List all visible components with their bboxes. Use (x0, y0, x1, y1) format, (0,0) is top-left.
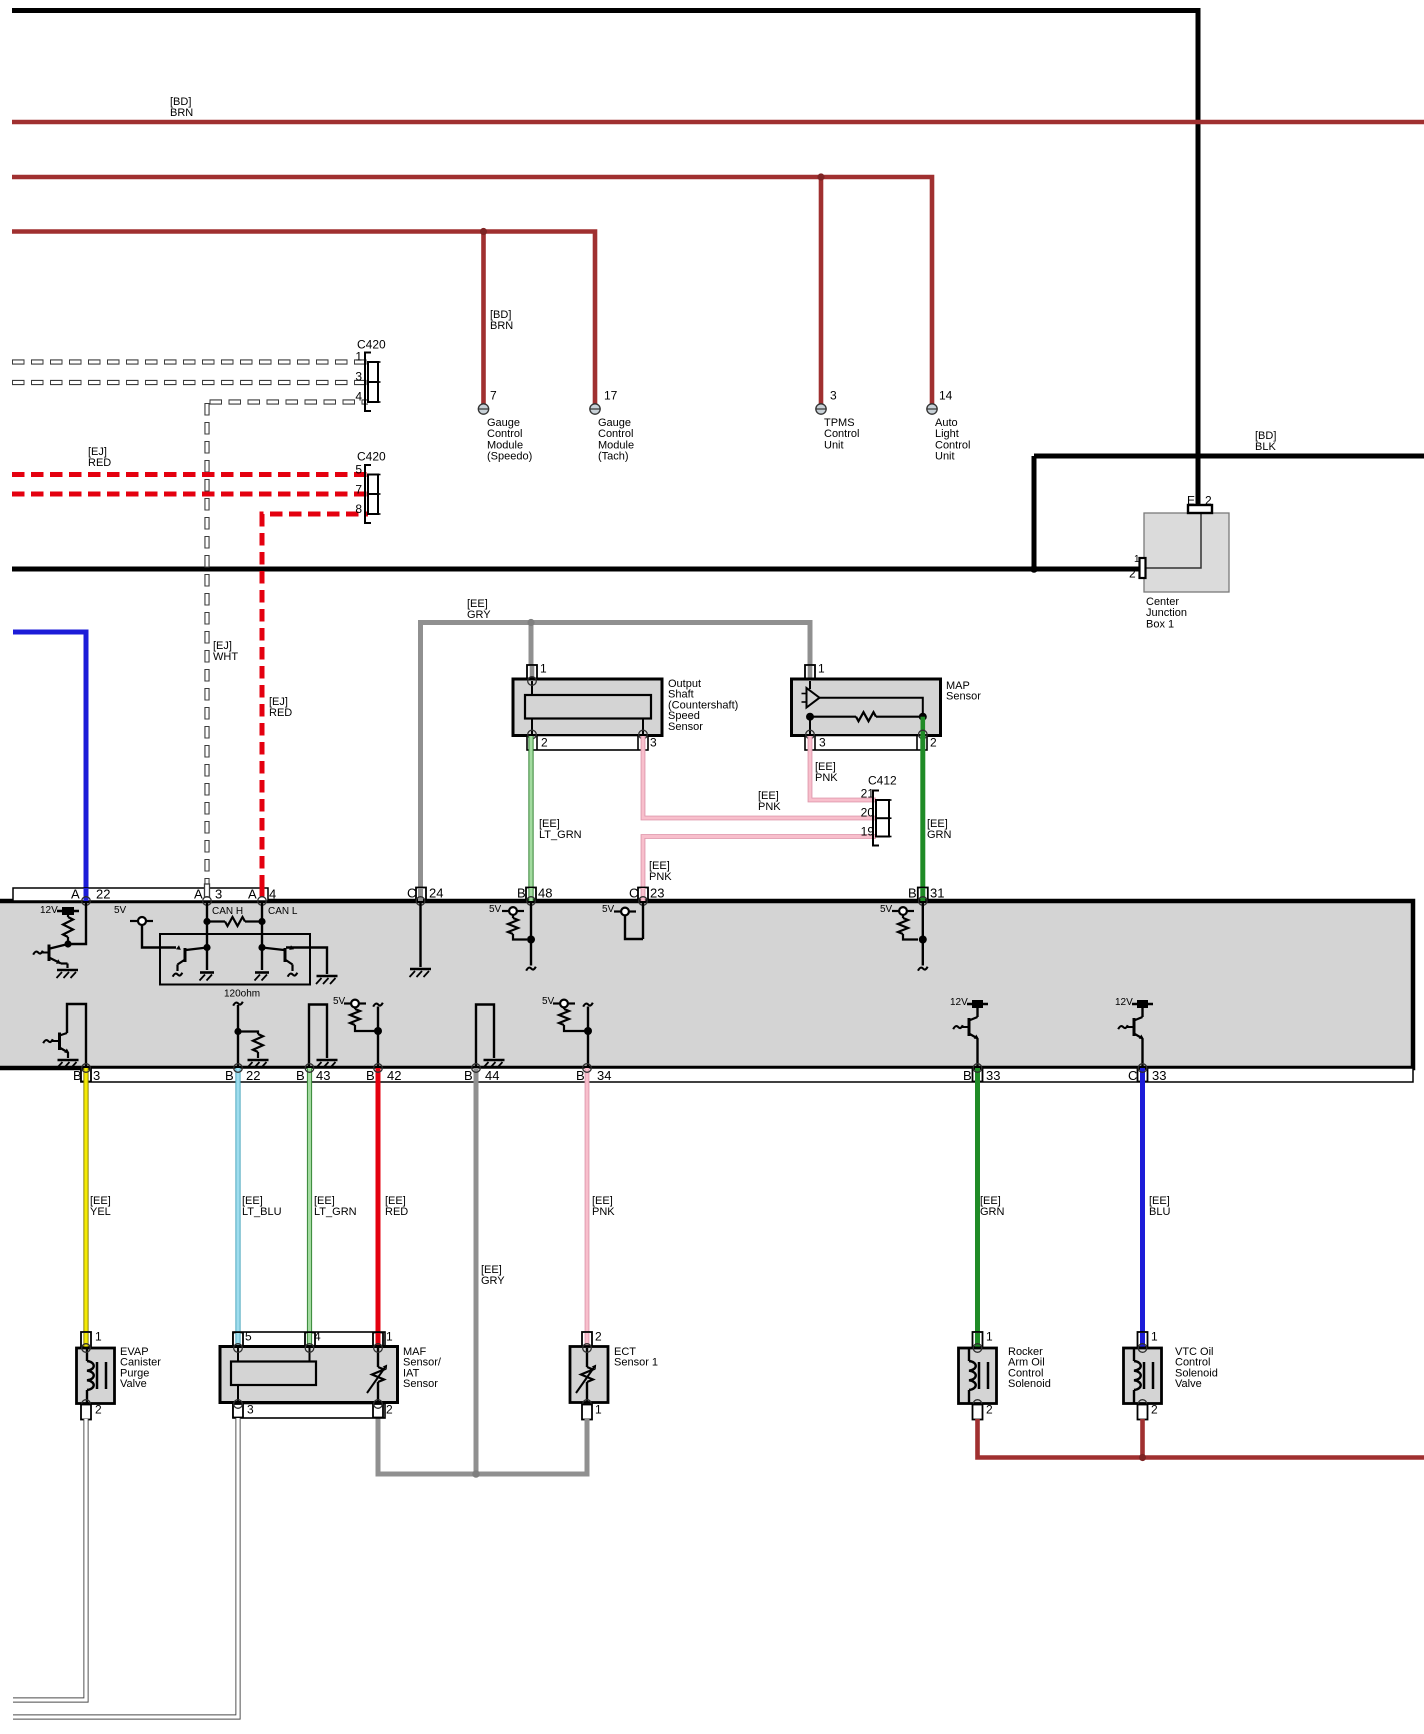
svg-text:Auto: Auto (935, 417, 958, 429)
node CAN H top (203, 918, 210, 925)
wire WHT dashed branch (C420 pin 4) (210, 399, 369, 404)
svg-text:RED: RED (88, 457, 111, 469)
resistor (B34 pull-up) (559, 1009, 569, 1025)
svg-text:2: 2 (986, 1403, 993, 1417)
pin circle bottom (ECT) (583, 1400, 592, 1409)
terminal pin 2 (EVAP) (81, 1405, 91, 1420)
wire BRN branch to TPMS (819, 177, 824, 404)
terminating resistor 120ohm (207, 920, 225, 922)
wire 5V to transceiver base (142, 925, 176, 948)
connector E2 terminal (1188, 505, 1212, 513)
svg-text:[EE]: [EE] (539, 818, 560, 830)
svg-text:2: 2 (386, 1403, 393, 1417)
transistor Q5 (B33 driver) (969, 1017, 978, 1021)
svg-text:34: 34 (597, 1068, 611, 1083)
connector pin 1 terminal (Output Shaft sensor) (527, 665, 537, 679)
svg-text:(Tach): (Tach) (598, 451, 629, 463)
svg-text:[EE]: [EE] (649, 860, 670, 872)
svg-text:1: 1 (95, 1330, 102, 1344)
wire WHT dash terminal A3 (205, 884, 210, 897)
svg-text:[EE]: [EE] (592, 1195, 613, 1207)
svg-text:3: 3 (93, 1068, 100, 1083)
svg-text:1: 1 (595, 1403, 602, 1417)
solenoid coil (VTC) (1133, 1349, 1135, 1361)
ground (B44) (484, 1059, 505, 1062)
terminal pin 2 (ECT) (582, 1332, 592, 1347)
svg-text:LT_GRN: LT_GRN (314, 1206, 357, 1218)
terminal pin 3 (MAF) (233, 1404, 243, 1418)
wire B44 loop (476, 1005, 494, 1069)
internal wire amp output (820, 698, 923, 717)
svg-text:2: 2 (95, 1403, 102, 1417)
svg-text:14: 14 (939, 389, 953, 403)
wire LT_GRN B43 to MAF pin4 (307, 1068, 312, 1347)
svg-text:[BD]: [BD] (1255, 430, 1276, 442)
wire LT_GRN through B48 terminal (528, 888, 533, 901)
svg-text:B: B (225, 1068, 234, 1083)
svg-text:Sensor 1: Sensor 1 (614, 1357, 658, 1369)
svg-text:Control: Control (935, 439, 970, 451)
svg-text:PNK: PNK (592, 1206, 615, 1218)
wire PNK C412 pin 19 to ECM C23 (643, 837, 876, 900)
svg-text:Sensor: Sensor (946, 691, 981, 703)
svg-text:12V: 12V (1115, 997, 1133, 1008)
svg-text:2: 2 (1205, 494, 1212, 508)
wire GRY branch to output shaft sensor (529, 623, 534, 680)
wire GRY through C24 terminal (418, 888, 423, 901)
terminal pin 2 (VTC) (1138, 1405, 1148, 1420)
solenoid coil (EVAP) (86, 1349, 88, 1361)
svg-text:GRN: GRN (980, 1206, 1005, 1218)
svg-text:[EE]: [EE] (980, 1195, 1001, 1207)
MAF inner element (231, 1362, 316, 1386)
wire WHT dashed bus 2 (C420 pin 3) (12, 380, 368, 385)
pin circle B43 (305, 1064, 314, 1073)
svg-text:24: 24 (429, 885, 443, 900)
node B48 (527, 936, 535, 944)
svg-text:B: B (73, 1068, 82, 1083)
svg-text:42: 42 (387, 1068, 401, 1083)
node junction GRY (527, 619, 534, 626)
ground (B3 driver) (58, 1059, 79, 1062)
svg-text:1: 1 (1151, 1330, 1158, 1344)
node junction BRN return (1139, 1454, 1146, 1461)
wire BLK main power (top) (12, 11, 1198, 507)
svg-text:Center: Center (1146, 596, 1179, 608)
internal lead pin4 (MAF) (309, 1348, 311, 1362)
svg-text:[EJ]: [EJ] (269, 696, 288, 708)
pin circle 2 (MAF) (374, 1400, 383, 1409)
wire BLU to ECM A22 (13, 632, 86, 899)
svg-text:31: 31 (930, 885, 944, 900)
wire RED dashed vertical to ECM A4 (260, 514, 265, 897)
svg-text:[EE]: [EE] (815, 761, 836, 773)
svg-text:Control: Control (598, 428, 633, 440)
svg-text:5: 5 (245, 1330, 252, 1344)
svg-text:1: 1 (818, 662, 825, 676)
svg-text:BLK: BLK (1255, 441, 1276, 453)
terminal box C33 (1138, 1069, 1148, 1082)
wire LT_GRN output pin2 to ECM B48 (528, 736, 533, 899)
svg-text:LT_GRN: LT_GRN (539, 829, 582, 841)
wire PNK through C23 terminal (641, 888, 646, 901)
wire PNK B34 to ECT pin2 (585, 1068, 590, 1347)
wire C23 lead (642, 901, 644, 939)
svg-text:LT_BLU: LT_BLU (242, 1206, 282, 1218)
svg-text:A: A (194, 886, 203, 901)
MAP sensor amplifier triangle (807, 688, 820, 708)
ECM connector strip A (top) (13, 888, 268, 901)
svg-text:B: B (517, 885, 526, 900)
svg-text:BRN: BRN (490, 320, 513, 332)
svg-text:A: A (71, 886, 80, 901)
svg-text:3: 3 (819, 736, 826, 750)
internal link inside junction box (1146, 513, 1201, 568)
wire BLK ground bus (12, 567, 1141, 572)
valve bars (VTC) (1143, 1362, 1146, 1389)
svg-text:Unit: Unit (935, 451, 955, 463)
svg-text:[EE]: [EE] (758, 790, 779, 802)
svg-text:4: 4 (269, 886, 276, 901)
svg-text:Sensor: Sensor (668, 721, 703, 733)
svg-text:1: 1 (540, 662, 547, 676)
svg-text:PNK: PNK (649, 871, 672, 883)
svg-text:[EE]: [EE] (385, 1195, 406, 1207)
svg-text:Box 1: Box 1 (1146, 618, 1174, 630)
node internal right (MAP) (919, 713, 927, 721)
wire CAN H lead (206, 901, 208, 970)
wire CAN L lead (261, 901, 263, 970)
svg-text:B: B (963, 1068, 972, 1083)
transistor Q4 (B3 driver) (60, 1033, 68, 1036)
terminal pin 1 (EVAP) (81, 1332, 91, 1347)
svg-text:1: 1 (1134, 554, 1140, 565)
svg-text:C: C (1128, 1068, 1137, 1083)
svg-text:[EJ]: [EJ] (88, 446, 107, 458)
svg-text:Module: Module (487, 439, 523, 451)
wire WHT EVAP pin2 (13, 1419, 86, 1700)
ECT Sensor 1 body (570, 1347, 608, 1403)
svg-text:CAN L: CAN L (268, 906, 298, 917)
wire YEL B3 to EVAP valve (83, 1068, 88, 1347)
valve bars (Rocker) (978, 1362, 981, 1389)
svg-text:5: 5 (355, 463, 362, 477)
svg-text:GRY: GRY (467, 609, 491, 621)
svg-text:Valve: Valve (120, 1378, 147, 1390)
resistor internal (MAP) (810, 716, 856, 718)
svg-text:C: C (629, 885, 638, 900)
MAF Sensor / IAT Sensor body (220, 1347, 398, 1403)
terminal box B3 (81, 1069, 91, 1082)
wire BRN solenoid return bus (978, 1419, 1424, 1458)
terminal pin 1 (Rocker) (973, 1332, 983, 1347)
svg-text:3: 3 (650, 736, 657, 750)
wire BLU through A22 strip (84, 888, 89, 901)
svg-text:2: 2 (1129, 567, 1136, 581)
svg-text:48: 48 (538, 885, 552, 900)
wire GRY B44 sensor ground (474, 1068, 479, 1474)
svg-text:22: 22 (246, 1068, 260, 1083)
svg-text:2: 2 (541, 736, 548, 750)
terminal pin 5 (MAF) (233, 1333, 243, 1347)
connector strip (MAF bottom) (233, 1404, 385, 1419)
svg-text:[EE]: [EE] (467, 598, 488, 610)
internal lead pin3 (MAF) (237, 1385, 239, 1403)
node junction BLK (1030, 565, 1038, 573)
ECM connector strip (bottom) (81, 1068, 1413, 1082)
svg-text:22: 22 (96, 886, 110, 901)
pin circle top (EVAP) (82, 1344, 91, 1353)
svg-text:BLU: BLU (1149, 1206, 1170, 1218)
svg-text:B: B (464, 1068, 473, 1083)
terminal pin 1 (VTC) (1138, 1332, 1148, 1347)
Rocker Arm Oil Control Solenoid body (959, 1348, 997, 1404)
svg-text:TPMS: TPMS (824, 417, 855, 429)
terminal pin 1 (ECT) (582, 1405, 592, 1420)
terminal pin 4 (MAF) (305, 1333, 315, 1347)
terminal box B31 (918, 888, 928, 900)
pin circle B3 (82, 1064, 91, 1073)
wire Q3 base to ground (286, 948, 327, 975)
CAN transceiver box (160, 934, 310, 985)
svg-text:44: 44 (485, 1068, 499, 1083)
wire B42 lead (377, 1007, 379, 1069)
svg-text:(Speedo): (Speedo) (487, 451, 532, 463)
ground (A22 driver) (57, 969, 78, 972)
svg-text:5V: 5V (542, 996, 555, 1007)
pin circle 1 (Output Shaft sensor) (528, 677, 537, 686)
svg-text:23: 23 (650, 885, 664, 900)
internal lead pin2 (MAP) (920, 717, 925, 734)
svg-text:3: 3 (215, 886, 222, 901)
wire RED dash terminal A4 (260, 884, 265, 897)
internal lead pin3 (642, 719, 644, 735)
wire BRN bus 2 (12, 177, 932, 404)
resistor (B48 pull-up) (508, 918, 518, 934)
svg-text:YEL: YEL (90, 1206, 111, 1218)
svg-text:Control: Control (824, 428, 859, 440)
svg-text:B: B (296, 1068, 305, 1083)
terminal pin 2 (MAF) (373, 1404, 383, 1418)
connector strip (Output Shaft sensor bottom) (527, 736, 648, 751)
svg-text:[EE]: [EE] (1149, 1195, 1170, 1207)
svg-text:Gauge: Gauge (487, 417, 520, 429)
wire B22 lead (237, 1005, 239, 1068)
wire GRY sensor supply (421, 623, 811, 900)
pin circle B42 (374, 1064, 383, 1073)
svg-text:C420: C420 (357, 450, 386, 464)
svg-text:4: 4 (314, 1330, 321, 1344)
pin circle C33 (1138, 1064, 1147, 1073)
ground (CAN H lead) (200, 971, 214, 974)
svg-text:5V: 5V (489, 904, 502, 915)
svg-text:RED: RED (269, 707, 292, 719)
connector strip (MAP sensor bottom) (805, 736, 927, 751)
ground (B22) (248, 1059, 269, 1062)
svg-text:WHT: WHT (213, 651, 238, 663)
Output Shaft sensor inner element (525, 695, 651, 719)
svg-text:C: C (407, 885, 416, 900)
terminal box B33 (973, 1069, 983, 1082)
wire B3 lead (67, 1004, 86, 1068)
wire BLU C33 to VTC solenoid (1140, 1068, 1145, 1347)
connector pin 1 terminal (MAP sensor) (805, 665, 815, 679)
base lead Q1 (42, 952, 48, 954)
transistor Q1 (A22 driver) (48, 945, 51, 962)
node B34 (584, 1027, 592, 1035)
svg-text:BRN: BRN (170, 107, 193, 119)
wire C24 lead to ground (419, 901, 421, 967)
wire GRN MAP pin2 to ECM B31 (920, 734, 925, 899)
wire B43 loop (309, 1005, 327, 1069)
node CAN L collector (258, 944, 265, 951)
svg-text:PNK: PNK (758, 801, 781, 813)
svg-text:1: 1 (986, 1330, 993, 1344)
svg-text:12V: 12V (950, 997, 968, 1008)
node B22 (234, 1028, 241, 1035)
ECM body (0, 901, 1413, 1068)
pin circle top (VTC) (1138, 1344, 1147, 1353)
svg-text:4: 4 (355, 390, 362, 404)
terminal pin 1 (MAF) (373, 1333, 383, 1347)
svg-text:Junction: Junction (1146, 607, 1187, 619)
svg-text:[EE]: [EE] (481, 1264, 502, 1276)
wire PNK output shaft pin3 to C412 pin 20 (643, 736, 876, 818)
svg-text:43: 43 (316, 1068, 330, 1083)
pin circle 3 (MAF) (234, 1400, 243, 1409)
connector terminal 2 (left side of junction box) (1140, 558, 1146, 578)
svg-text:[BD]: [BD] (490, 309, 511, 321)
wire BLK vertical link (1032, 456, 1037, 569)
node CAN L top (258, 918, 265, 925)
internal lead pin5 (MAF) (237, 1348, 239, 1362)
ground (C24) (410, 968, 431, 971)
svg-text:A: A (248, 886, 257, 901)
svg-text:5V: 5V (333, 996, 346, 1007)
wire BRN bus 1 (12, 120, 1424, 125)
svg-text:[EE]: [EE] (242, 1195, 263, 1207)
svg-text:PNK: PNK (815, 772, 838, 784)
svg-text:Light: Light (935, 428, 959, 440)
wire LT_BLU B22 to MAF pin5 (235, 1068, 240, 1347)
svg-text:GRY: GRY (481, 1275, 505, 1287)
node CAN H collector (203, 944, 210, 951)
wire B31 lead (922, 901, 924, 966)
resistor (B42 pull-up) (350, 1009, 360, 1025)
MAP Sensor body (792, 679, 941, 736)
node junction on BRN bus 2 (817, 173, 824, 180)
svg-text:3: 3 (247, 1403, 254, 1417)
internal lead pin1 (531, 681, 533, 695)
node B31 (919, 936, 927, 944)
svg-text:B: B (908, 885, 917, 900)
node internal left (MAP) (806, 713, 814, 721)
svg-text:3: 3 (830, 389, 837, 403)
valve bars (EVAP) (96, 1362, 99, 1389)
pin circle B22 (234, 1064, 243, 1073)
pin circle 3 (MAP) (806, 730, 815, 739)
pin circle 3 (Output Shaft sensor) (639, 730, 648, 739)
wire WHT dashed bus 1 (C420 pin 1) (12, 359, 368, 364)
resistor (B31 pull-up) (898, 918, 908, 934)
thermistor (ECT) (586, 1348, 588, 1367)
transistor Q3 (CAN L) (284, 948, 287, 962)
pin circle top (ECT) (583, 1344, 592, 1353)
svg-text:E: E (1187, 494, 1195, 508)
wire GRY ECT pin1 (drawn above) (585, 1419, 590, 1474)
terminal box C23 (638, 888, 648, 900)
internal lead pin3 (MAP) (809, 717, 811, 734)
svg-text:12V: 12V (40, 905, 58, 916)
wire WHT MAF pin3 (13, 1418, 238, 1717)
svg-text:8: 8 (355, 502, 362, 516)
IAT thermistor (MAF) (377, 1348, 379, 1367)
svg-text:33: 33 (986, 1068, 1000, 1083)
svg-text:[EE]: [EE] (314, 1195, 335, 1207)
svg-text:Gauge: Gauge (598, 417, 631, 429)
svg-text:CAN H: CAN H (212, 906, 243, 917)
svg-text:[EE]: [EE] (927, 818, 948, 830)
svg-text:C412: C412 (868, 774, 897, 788)
pin circle B44 (472, 1064, 481, 1073)
svg-text:7: 7 (490, 389, 497, 403)
pin circle bottom (VTC) (1138, 1400, 1147, 1409)
svg-text:Valve: Valve (1175, 1378, 1202, 1390)
svg-text:RED: RED (385, 1206, 408, 1218)
Center Junction Box 1 body (1144, 513, 1229, 592)
terminal pin 2 (Rocker) (973, 1405, 983, 1420)
pin circle bottom (Rocker) (973, 1400, 982, 1409)
wire RED dashed branch (C420 pin 8) (262, 514, 368, 525)
wire WHT dashed vertical to ECM A3 (204, 403, 209, 897)
svg-text:[EE]: [EE] (90, 1195, 111, 1207)
svg-text:3: 3 (355, 370, 362, 384)
svg-text:20: 20 (861, 806, 875, 820)
svg-text:[BD]: [BD] (170, 96, 191, 108)
wire GRN B33 to rocker solenoid (975, 1068, 980, 1347)
pin circle 4 (MAF) (305, 1344, 314, 1353)
Output Shaft (Countershaft) Speed Sensor body (513, 679, 662, 736)
node B42 (374, 1027, 382, 1035)
svg-text:5V: 5V (880, 904, 893, 915)
wire B33 lead (976, 1039, 978, 1069)
pin circle bottom (EVAP) (82, 1400, 91, 1409)
wire RED dashed bus 1 (C420 pin 5) (12, 472, 368, 477)
svg-text:120ohm: 120ohm (224, 989, 260, 1000)
svg-text:[EJ]: [EJ] (213, 640, 232, 652)
svg-text:2: 2 (930, 736, 937, 750)
wire RED dashed bus 2 (C420 pin 7) (12, 492, 368, 497)
ground (B43) (317, 1059, 338, 1062)
svg-text:2: 2 (1151, 1403, 1158, 1417)
svg-text:Control: Control (487, 428, 522, 440)
svg-text:19: 19 (861, 825, 875, 839)
EVAP Canister Purge Valve body (77, 1348, 115, 1404)
svg-text:Solenoid: Solenoid (1008, 1378, 1051, 1390)
svg-text:2: 2 (595, 1330, 602, 1344)
svg-text:7: 7 (355, 483, 362, 497)
svg-text:33: 33 (1152, 1068, 1166, 1083)
resistor (A22 driver) (67, 915, 69, 917)
terminal box B48 (526, 888, 536, 900)
wire PNK MAP pin3 to C412 pin 21 (810, 736, 876, 800)
internal lead pin2 (531, 719, 533, 735)
internal lead pin1 (MAP) (809, 681, 811, 689)
solenoid coil (Rocker) (968, 1349, 970, 1361)
svg-text:B: B (366, 1068, 375, 1083)
terminal box C24 (416, 888, 426, 900)
wire BLK bus to junction box (1034, 454, 1424, 459)
